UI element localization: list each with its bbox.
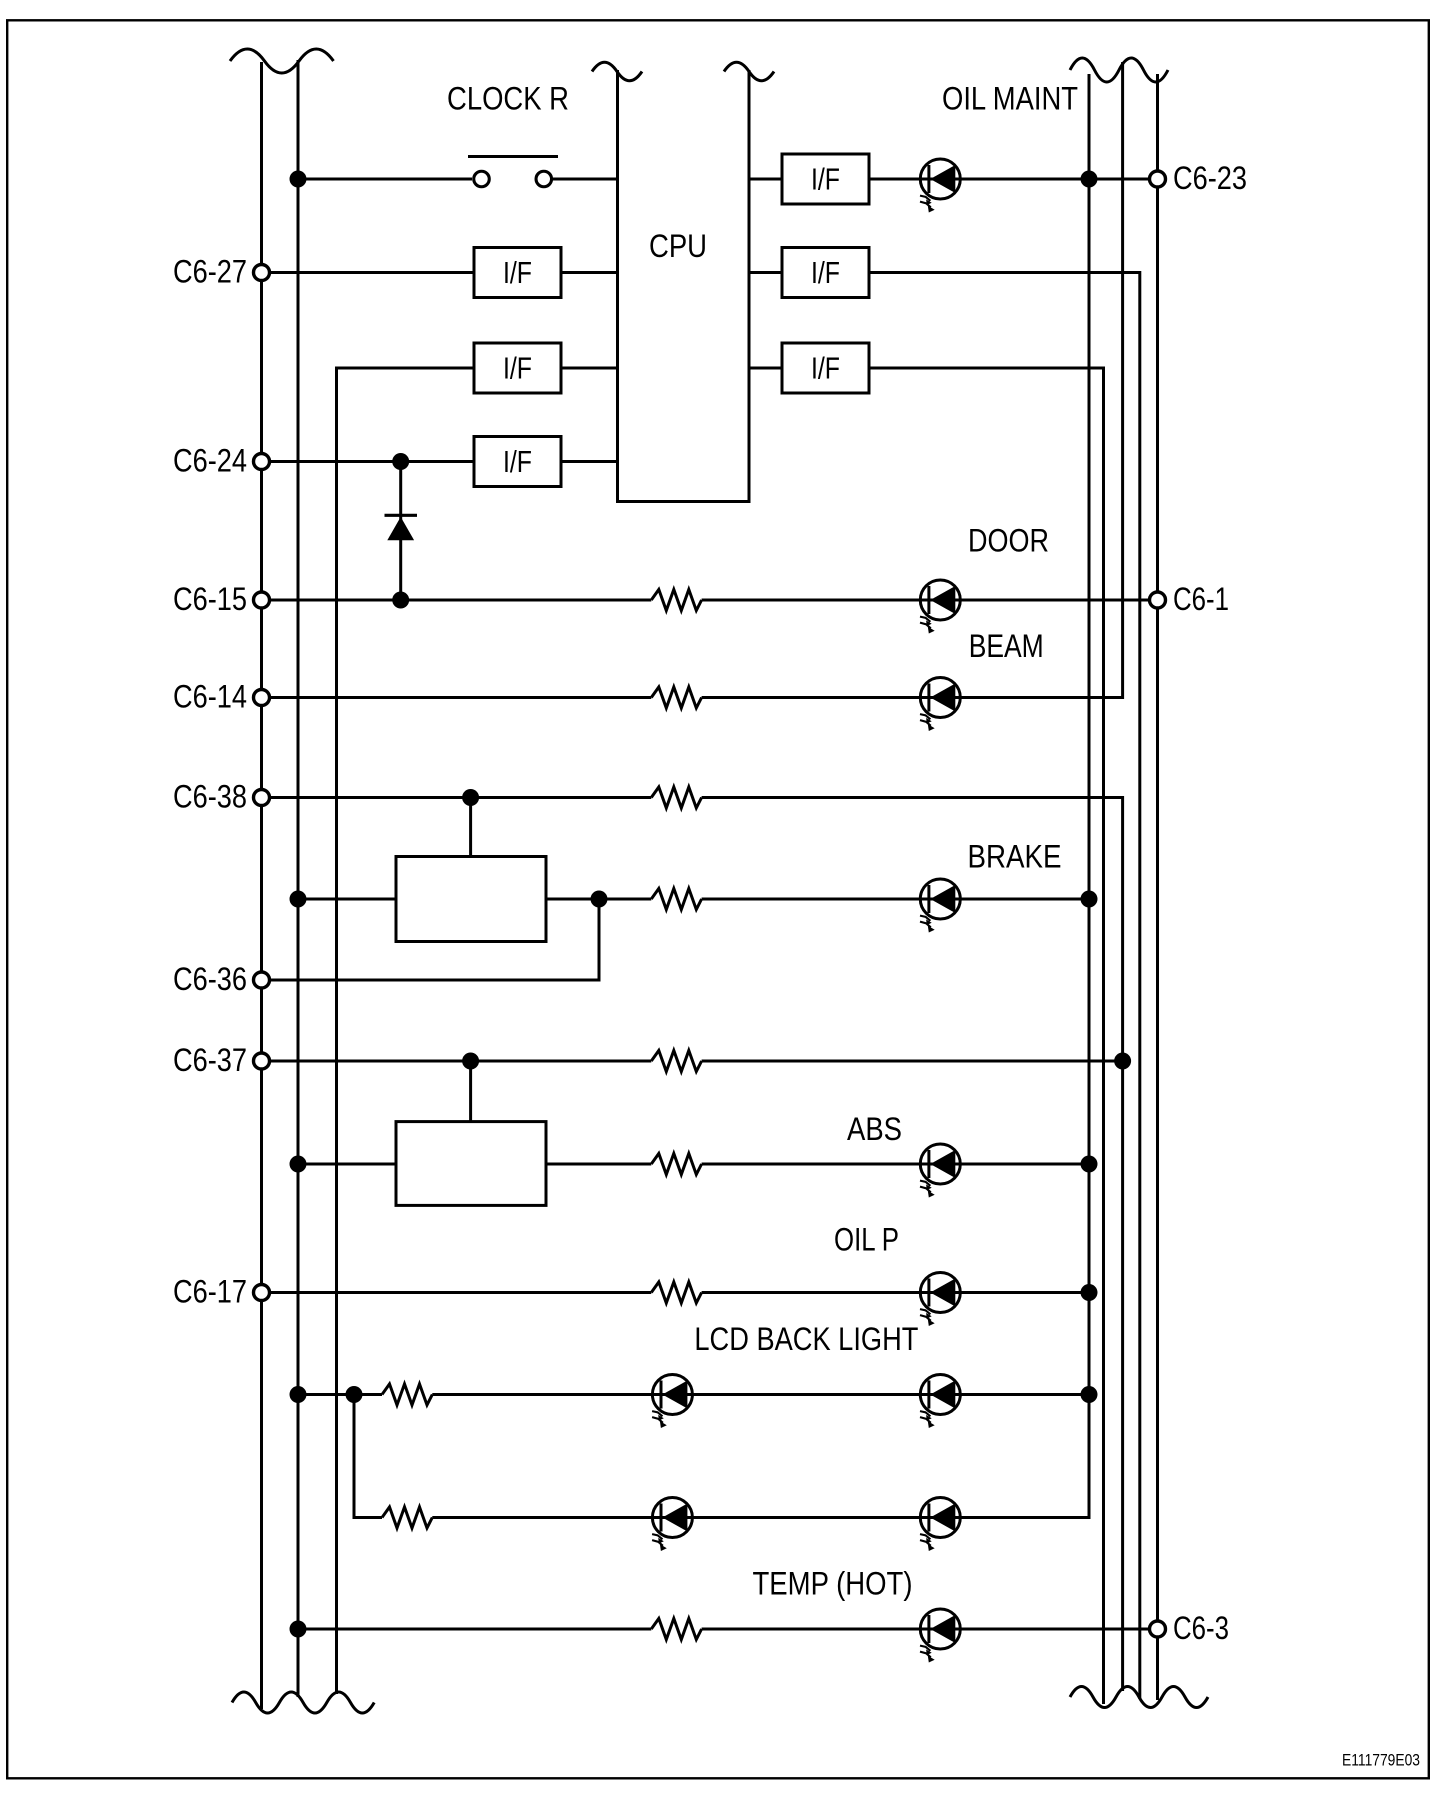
svg-text:I/F: I/F xyxy=(811,255,840,290)
wire CPU to I/F row3 right xyxy=(749,367,782,370)
wire row11 to driver box xyxy=(298,1163,396,1166)
wire C6-36 branch xyxy=(270,899,599,980)
LED LCD BACK LIGHT 2 xyxy=(920,1375,960,1429)
connector C6-17 xyxy=(254,1285,270,1301)
svg-text:TEMP (HOT): TEMP (HOT) xyxy=(753,1566,913,1602)
interface block I/F row2 left xyxy=(474,248,561,298)
junction row7 driver tap xyxy=(462,789,479,806)
resistor row15 TEMP xyxy=(651,1619,701,1640)
junction row13 on right bus xyxy=(1081,1386,1098,1403)
resistor row8 BRAKE xyxy=(651,889,701,910)
junction row5 diode xyxy=(392,592,409,609)
svg-text:I/F: I/F xyxy=(503,351,532,386)
connector C6-24 xyxy=(254,454,270,470)
wire row13 left xyxy=(298,1393,382,1396)
LED LCD BACK LIGHT 4 xyxy=(920,1498,960,1552)
interface block I/F row2 right xyxy=(782,248,869,298)
wire row14 right xyxy=(432,1516,1090,1519)
wire CPU to I/F row2 right xyxy=(749,271,782,274)
wire row7 right falls to bottom break xyxy=(702,798,1123,1692)
wire row15 right to connector C6-3 xyxy=(702,1628,1150,1631)
wire left bus line 2 (vertical) xyxy=(297,60,300,1697)
junction row4 diode tap xyxy=(392,453,409,470)
wire CPU to I/F row1 xyxy=(749,178,782,181)
wire row12 left xyxy=(270,1291,651,1294)
svg-text:BEAM: BEAM xyxy=(969,628,1044,664)
LED OIL MAINT xyxy=(920,159,960,213)
junction row15 on left bus 2 xyxy=(290,1621,307,1638)
interface block I/F row1 right xyxy=(782,154,869,204)
wire row10 left xyxy=(270,1060,651,1063)
wire row1 from bus to switch xyxy=(298,178,472,181)
LED DOOR xyxy=(920,580,960,634)
svg-text:C6-1: C6-1 xyxy=(1173,581,1229,617)
connector C6-15 xyxy=(254,592,270,608)
wire switch to CPU xyxy=(553,178,618,181)
wire right bus line (common cathode bus) xyxy=(1088,74,1091,1518)
resistor row11 ABS xyxy=(651,1154,701,1175)
svg-text:I/F: I/F xyxy=(503,444,532,479)
wire rightmost bus line (connector line C6) xyxy=(1156,74,1159,1700)
wire row14 branch riser xyxy=(354,1395,382,1518)
junction row10 driver tap xyxy=(462,1053,479,1070)
svg-text:C6-23: C6-23 xyxy=(1173,160,1247,196)
connector C6-3 xyxy=(1150,1621,1166,1637)
junction row13 branch xyxy=(346,1386,363,1403)
wire row8 to driver box xyxy=(298,898,396,901)
svg-text:C6-36: C6-36 xyxy=(173,961,247,997)
junction row1 on left bus 2 xyxy=(290,171,307,188)
junction row13 on left bus 2 xyxy=(290,1386,307,1403)
break symbol top right xyxy=(1070,58,1168,82)
svg-text:OIL MAINT: OIL MAINT xyxy=(942,81,1078,117)
svg-text:C6-14: C6-14 xyxy=(173,679,247,715)
wire row11 right xyxy=(702,1163,1089,1166)
junction row10 on falling bus xyxy=(1114,1053,1131,1070)
wire row6 left xyxy=(270,696,651,699)
wire row12 right xyxy=(702,1291,1089,1294)
wire row5 left xyxy=(270,599,651,602)
svg-text:C6-17: C6-17 xyxy=(173,1274,247,1310)
wire I/F row3 to CPU xyxy=(561,367,618,370)
LED ABS xyxy=(920,1144,960,1198)
connector C6-37 xyxy=(254,1053,270,1069)
wire driver1 input branch xyxy=(469,798,472,857)
resistor row14 LCD xyxy=(382,1507,432,1528)
junction row8 on left bus 2 xyxy=(290,891,307,908)
break symbol bottom left xyxy=(232,1692,374,1713)
svg-text:CLOCK R: CLOCK R xyxy=(447,81,569,117)
junction row11 on right bus xyxy=(1081,1156,1098,1173)
break symbol CPU left lead xyxy=(592,62,642,81)
interface block I/F row3 right xyxy=(782,343,869,393)
wire driver2 output xyxy=(546,1163,651,1166)
resistor row6 BEAM xyxy=(651,687,701,708)
connector C6-14 xyxy=(254,690,270,706)
svg-text:I/F: I/F xyxy=(503,255,532,290)
svg-text:CPU: CPU xyxy=(649,228,707,264)
svg-text:BRAKE: BRAKE xyxy=(968,839,1062,875)
wire row15 left xyxy=(298,1628,651,1631)
junction row8 on right bus xyxy=(1081,891,1098,908)
driver box ABS xyxy=(396,1122,546,1206)
wire I/F row2 output down right bus 4 xyxy=(869,273,1140,1700)
LED TEMP HOT xyxy=(920,1609,960,1663)
wire C6-24 to I/F xyxy=(270,460,474,463)
resistor row10 xyxy=(651,1051,701,1072)
svg-text:ABS: ABS xyxy=(847,1111,902,1147)
break symbol top left xyxy=(230,49,334,73)
LED BEAM xyxy=(920,678,960,732)
junction row12 on right bus xyxy=(1081,1284,1098,1301)
wire row6 right riser to top break xyxy=(702,62,1123,698)
wire I/F row2 to CPU xyxy=(561,271,618,274)
wire C6-27 to I/F xyxy=(270,271,474,274)
diode D1 xyxy=(385,515,418,540)
wire row13 right xyxy=(432,1393,1089,1396)
svg-text:C6-37: C6-37 xyxy=(173,1042,247,1078)
interface block I/F row3 left xyxy=(474,343,561,393)
junction row1 on right bus xyxy=(1081,171,1098,188)
wire row5 right to connector C6-1 xyxy=(702,599,1150,602)
break symbol CPU right lead xyxy=(724,62,774,81)
svg-text:E111779E03: E111779E03 xyxy=(1342,1751,1420,1770)
svg-text:C6-15: C6-15 xyxy=(173,581,247,617)
svg-text:C6-27: C6-27 xyxy=(173,254,247,290)
wire diode branch vertical xyxy=(399,462,402,601)
wire driver2 input branch xyxy=(469,1061,472,1122)
wire row3 left riser xyxy=(337,368,475,1694)
svg-text:LCD BACK LIGHT: LCD BACK LIGHT xyxy=(694,1321,918,1357)
resistor row12 OIL P xyxy=(651,1282,701,1303)
LED OIL P xyxy=(920,1273,960,1327)
svg-text:C6-3: C6-3 xyxy=(1173,1610,1229,1646)
break symbol bottom right xyxy=(1070,1687,1208,1708)
wire driver1 output xyxy=(546,898,651,901)
svg-text:OIL P: OIL P xyxy=(834,1222,899,1258)
connector C6-36 xyxy=(254,972,270,988)
connector C6-1 xyxy=(1150,592,1166,608)
connector C6-27 xyxy=(254,265,270,281)
svg-text:DOOR: DOOR xyxy=(968,523,1049,559)
LED LCD BACK LIGHT 1 xyxy=(652,1375,692,1429)
svg-text:C6-38: C6-38 xyxy=(173,779,247,815)
driver box BRAKE xyxy=(396,857,546,942)
junction row11 on left bus 2 xyxy=(290,1156,307,1173)
wire I/F row3 output down right bus 2 xyxy=(869,368,1104,1704)
wire I/F row1 to connector C6-23 xyxy=(869,178,1150,181)
connector C6-23 xyxy=(1150,171,1166,187)
wire left bus line 1 (vertical, with connectors C6) xyxy=(260,62,263,1709)
resistor row13 LCD xyxy=(382,1384,432,1405)
wire I/F row4 to CPU xyxy=(561,460,618,463)
junction row8 C6-36 tap xyxy=(591,891,608,908)
connector C6-38 xyxy=(254,790,270,806)
resistor row5 DOOR xyxy=(651,590,701,611)
LED LCD BACK LIGHT 3 xyxy=(652,1498,692,1552)
resistor row7 xyxy=(651,787,701,808)
svg-text:C6-24: C6-24 xyxy=(173,443,247,479)
svg-text:I/F: I/F xyxy=(811,162,840,197)
IC CPU box xyxy=(618,70,750,502)
wire row10 right xyxy=(702,1060,1123,1063)
interface block I/F row4 left xyxy=(474,437,561,487)
wire row7 left xyxy=(270,796,651,799)
wire row8 right xyxy=(702,898,1089,901)
LED BRAKE xyxy=(920,879,960,933)
svg-text:I/F: I/F xyxy=(811,351,840,386)
switch CLOCK R xyxy=(468,157,558,187)
